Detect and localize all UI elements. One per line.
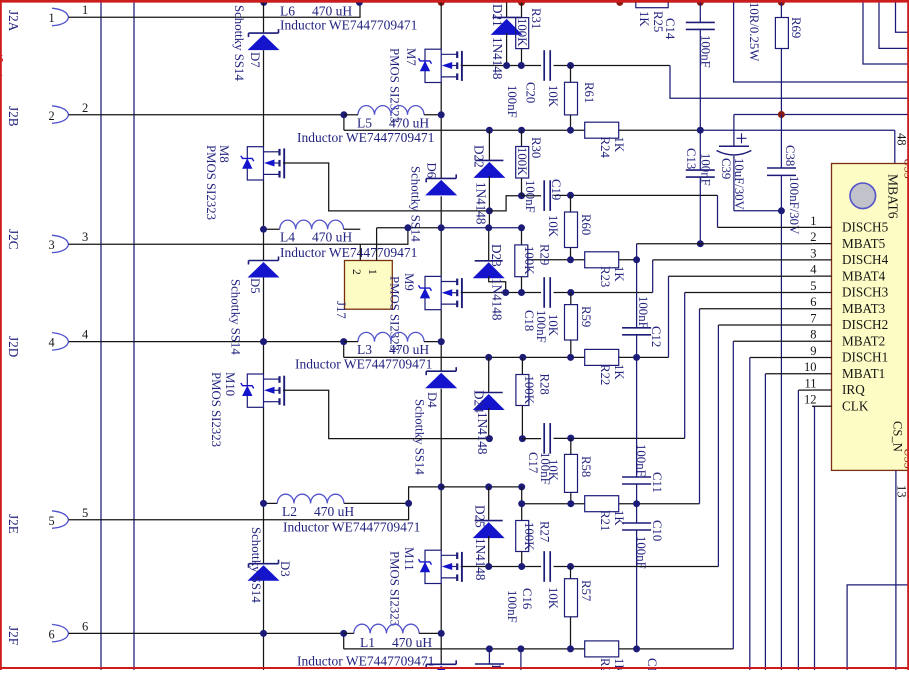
label C39	[719, 158, 733, 179]
wire net MBAT2 y=648.9	[344, 341, 734, 649]
label R59	[579, 306, 593, 327]
node R69 top junction	[778, 0, 785, 6]
node pin4 branch junction	[340, 338, 347, 345]
label right edge designator	[902, 158, 909, 469]
node R30 bottom junction	[518, 192, 525, 199]
svg-text:C19: C19	[549, 179, 563, 200]
label D23	[489, 244, 504, 267]
svg-text:D24: D24	[472, 390, 487, 413]
label R29	[538, 244, 552, 265]
resistor R20 1K	[585, 641, 619, 657]
pin number 3 label	[82, 230, 88, 244]
svg-text:11: 11	[804, 376, 816, 390]
svg-text:D7: D7	[248, 52, 262, 68]
pin 12 CLK	[804, 393, 869, 414]
label M7 PMOS SI2323	[388, 48, 402, 123]
resistor R27 100K	[516, 487, 529, 567]
svg-text:R24: R24	[598, 137, 612, 159]
resistor R60 10K	[565, 195, 578, 259]
capacitor C14 100nF	[686, 2, 715, 130]
wire net y=82 to right sheet	[734, 0, 909, 82]
label R57 10K	[546, 587, 560, 610]
label R23	[598, 266, 626, 287]
schottky diode D6	[425, 174, 457, 195]
wire bottom right route	[847, 585, 909, 670]
svg-text:4: 4	[49, 336, 55, 350]
svg-text:C17: C17	[526, 452, 540, 474]
node D25 top junction	[485, 483, 492, 490]
wire off-sheet route 1	[863, 0, 909, 64]
pin 8 MBAT2	[810, 328, 885, 349]
svg-text:1: 1	[49, 11, 55, 25]
resistor R28 100K	[516, 357, 529, 438]
node C19 right junction	[567, 192, 574, 199]
svg-text:10K: 10K	[546, 459, 560, 482]
svg-text:470 uH: 470 uH	[392, 635, 432, 650]
svg-text:D3: D3	[278, 561, 292, 577]
svg-text:R58: R58	[579, 456, 593, 477]
resistor R59 10K	[565, 293, 578, 358]
svg-text:DISCH2: DISCH2	[842, 317, 888, 332]
svg-text:M11: M11	[402, 547, 416, 571]
svg-text:2: 2	[810, 230, 816, 244]
resistor R30 100K	[516, 130, 529, 196]
svg-text:C13: C13	[684, 148, 698, 169]
svg-text:MBAT4: MBAT4	[842, 268, 886, 283]
node C10 top junction	[633, 500, 640, 507]
svg-text:D23: D23	[489, 244, 504, 267]
node R61 bottom junction	[567, 127, 574, 134]
label R69 10R/0.25W	[747, 2, 761, 62]
svg-text:C14: C14	[663, 18, 677, 40]
svg-text:C12: C12	[649, 326, 663, 347]
svg-text:Schottky SS14: Schottky SS14	[249, 527, 263, 603]
wire vertical bus rail x=101	[100, 0, 102, 670]
wire pin11 IRQ route	[798, 390, 812, 670]
label D24 1N4148	[475, 412, 490, 455]
node L5 right junction	[438, 111, 445, 118]
label D6 Schottky SS14	[409, 166, 423, 242]
label R31	[529, 8, 543, 29]
label C20 100nF	[505, 85, 519, 118]
capacitor C18 100nF	[544, 277, 550, 308]
label M8 PMOS SI2323	[204, 145, 218, 220]
svg-text:2: 2	[49, 109, 55, 123]
svg-text:M10: M10	[223, 372, 237, 396]
label M10 PMOS SI2323	[209, 372, 223, 447]
wire net VP y=114.5	[734, 114, 909, 116]
wire pin4 MBAT4 route	[669, 275, 813, 277]
label D21	[490, 4, 505, 27]
node D25 anode junction	[485, 563, 492, 570]
node pin5 junction	[405, 500, 412, 507]
label C19	[549, 179, 563, 200]
svg-text:10K: 10K	[546, 215, 560, 238]
label C17 100nF	[538, 452, 552, 485]
wire pin4 branch	[343, 342, 345, 358]
wire pin12 CLK route	[812, 406, 814, 670]
node R29 bottom junction	[518, 289, 525, 296]
svg-text:1N4148: 1N4148	[490, 37, 505, 80]
label D24	[472, 390, 487, 413]
wire pin2 branch	[343, 115, 345, 130]
label R57	[579, 580, 593, 602]
svg-text:100nF: 100nF	[636, 296, 650, 329]
node L4 left junction	[260, 226, 267, 233]
svg-text:IRQ: IRQ	[842, 382, 865, 397]
wire pin3 DISCH4 route	[653, 259, 813, 261]
svg-text:100K: 100K	[515, 147, 529, 176]
svg-text:Inductor WE7447709471: Inductor WE7447709471	[297, 654, 434, 669]
connector J2C pin 3	[6, 229, 69, 253]
node D23 top junction	[485, 224, 492, 231]
svg-text:100nF: 100nF	[534, 310, 548, 343]
node R58 bottom junction	[567, 500, 574, 507]
svg-text:R23: R23	[598, 266, 612, 287]
resistor R24 1K	[585, 122, 619, 138]
svg-text:8: 8	[810, 328, 816, 342]
svg-text:R59: R59	[579, 306, 593, 327]
capacitor C17 100nF	[544, 423, 550, 454]
wire pin1 to top rail	[69, 2, 361, 17]
resistor R23 1K	[585, 252, 619, 268]
node C18 right junction	[567, 289, 574, 296]
label pin 13	[895, 485, 909, 498]
label R27	[538, 521, 552, 543]
svg-text:6: 6	[49, 627, 55, 641]
svg-text:MBAT3: MBAT3	[842, 301, 886, 316]
label R24	[598, 137, 626, 159]
svg-text:C38: C38	[783, 145, 797, 166]
node R29 top junction	[518, 224, 525, 231]
svg-text:Schottky SS14: Schottky SS14	[409, 166, 423, 242]
inductor L3 label	[295, 342, 432, 372]
label C12	[649, 326, 663, 347]
svg-text:10K: 10K	[546, 587, 560, 610]
wire rail D7/M8/D5/M10/D3 column x=263.5	[263, 2, 265, 670]
label C11	[650, 472, 664, 493]
node pin2 branch junction	[340, 111, 347, 118]
svg-text:R30: R30	[529, 137, 543, 158]
label C19 100nF	[523, 180, 537, 213]
wire M7 gate net B1	[461, 66, 909, 99]
node L1 right junction	[438, 630, 445, 637]
svg-text:L1: L1	[360, 635, 375, 650]
node L2 rail junction	[438, 483, 445, 490]
capacitor C11 100nF	[622, 357, 651, 503]
wire pin1 DISCH5 route	[718, 226, 813, 228]
svg-text:MBAT1: MBAT1	[842, 366, 885, 381]
svg-text:D21: D21	[490, 4, 505, 27]
label D22	[472, 145, 487, 168]
svg-text:PMOS SI2323: PMOS SI2323	[388, 276, 402, 351]
svg-text:100nF: 100nF	[523, 180, 537, 213]
node C13 pin2 junction	[697, 240, 704, 247]
svg-text:J2D: J2D	[6, 336, 21, 357]
resistor R31 100K	[516, 2, 529, 66]
node D24 anode junction	[486, 435, 493, 442]
pmos M11	[419, 550, 462, 583]
wire pin5 DISCH3 route	[685, 292, 813, 294]
node D21 anode junction	[503, 62, 510, 69]
label R20	[598, 658, 626, 675]
wire pin4	[69, 341, 344, 343]
label MBAT6 pin48 name	[886, 174, 901, 219]
svg-text:M8: M8	[217, 145, 231, 163]
pin 9 DISCH1	[810, 344, 888, 365]
node C12 top junction	[633, 256, 640, 263]
node R28 bottom junction	[519, 435, 526, 442]
svg-text:R21: R21	[598, 510, 612, 531]
label M11 PMOS SI2323	[388, 551, 402, 626]
inductor L1 label	[297, 635, 434, 669]
svg-text:M7: M7	[404, 48, 418, 66]
svg-text:R25: R25	[651, 11, 665, 32]
label C10	[650, 520, 664, 541]
wire L4 net	[264, 228, 522, 230]
svg-text:D5: D5	[248, 278, 262, 294]
wire top rail y=2	[240, 1, 782, 3]
cut resistor R26 lead	[520, 649, 522, 670]
resistor R69 10R	[775, 2, 788, 115]
label R21	[598, 510, 626, 531]
diode D22 1N4148	[473, 130, 505, 228]
svg-text:R27: R27	[538, 521, 552, 543]
svg-text:1N4148: 1N4148	[490, 278, 505, 321]
inductor L4 label	[280, 230, 417, 261]
svg-text:C39: C39	[719, 158, 733, 179]
node L3 right junction	[438, 338, 445, 345]
svg-text:C16: C16	[520, 588, 534, 610]
label R60 10K	[546, 215, 560, 238]
resistor R25 1K	[636, 0, 668, 32]
svg-text:CLK: CLK	[842, 398, 869, 413]
label C13	[684, 148, 698, 169]
svg-text:R29: R29	[538, 244, 552, 265]
connector J2B pin 2	[6, 106, 69, 127]
wire rail M7/D6/M9/D4/M11 column x=441.2	[440, 2, 442, 664]
node M7 drain top junction	[438, 0, 445, 6]
svg-text:R57: R57	[579, 580, 593, 602]
inductor L2 label	[282, 504, 420, 535]
label D6	[425, 163, 439, 179]
pin number 6 label	[82, 619, 88, 633]
wire pin2 MBAT5 route right	[637, 243, 813, 245]
svg-text:12: 12	[804, 393, 817, 407]
pin number 5 label	[82, 506, 88, 520]
svg-text:5: 5	[810, 279, 816, 293]
label D5 Schottky SS14	[229, 279, 243, 355]
svg-text:100nF: 100nF	[505, 590, 519, 623]
svg-text:1: 1	[82, 3, 88, 17]
wire M8 gate route	[283, 163, 489, 211]
node R31 top junction	[518, 0, 525, 6]
svg-text:2: 2	[350, 269, 362, 275]
svg-text:PMOS SI2323: PMOS SI2323	[204, 145, 218, 220]
node R30 top junction	[518, 127, 525, 134]
label C12 100nF	[636, 296, 650, 329]
svg-text:10: 10	[804, 360, 817, 374]
svg-text:100K: 100K	[522, 246, 536, 275]
svg-text:100K: 100K	[522, 522, 536, 551]
node C14 top junction	[697, 0, 704, 6]
diode D25 1N4148	[473, 487, 505, 567]
pmos M9	[419, 276, 462, 309]
wire net MBAT5 y=259.8	[527, 259, 637, 261]
svg-text:D6: D6	[425, 163, 439, 179]
wire pin8 MBAT2 route	[733, 340, 812, 342]
svg-text:3: 3	[82, 230, 88, 244]
svg-text:10R/0.25W: 10R/0.25W	[747, 2, 761, 62]
svg-text:DISCH3: DISCH3	[842, 285, 889, 300]
svg-text:L4: L4	[280, 230, 295, 245]
label C14 100nF	[699, 35, 713, 68]
op-amp U35 IC block	[832, 164, 909, 471]
node L2 left junction	[260, 500, 267, 507]
connector J2F pin 6	[6, 624, 69, 645]
svg-text:100nF: 100nF	[634, 444, 648, 477]
wire pin2 MBAT5 route	[636, 244, 638, 260]
schottky diode D3	[248, 560, 280, 581]
svg-text:470 uH: 470 uH	[312, 4, 352, 19]
node C38 bottom junction	[778, 207, 785, 214]
pin 1 DISCH5	[810, 214, 888, 235]
svg-text:R60: R60	[579, 214, 593, 235]
label D3 Schottky SS14	[249, 527, 263, 603]
label R60	[579, 214, 593, 235]
node D23 anode junction	[502, 289, 509, 296]
label R69	[789, 17, 803, 38]
svg-text:J2C: J2C	[6, 229, 21, 250]
inductor L2	[277, 494, 344, 503]
svg-text:1K: 1K	[612, 266, 626, 282]
node pin3 junction	[404, 224, 411, 231]
node C15 junction	[633, 645, 640, 652]
svg-text:9: 9	[810, 344, 816, 358]
label R58 10K	[546, 459, 560, 482]
svg-text:6: 6	[810, 295, 816, 309]
node D26 top junction	[486, 645, 493, 652]
node D24 top junction	[485, 354, 492, 361]
diode D21 1N4148	[491, 2, 523, 66]
wire off-sheet route 3	[896, 0, 909, 32]
svg-text:R22: R22	[598, 364, 612, 385]
svg-text:Schottky SS14: Schottky SS14	[229, 279, 243, 355]
resistor R58 10K	[565, 438, 578, 503]
label D25	[473, 505, 488, 528]
svg-text:D25: D25	[473, 505, 488, 528]
svg-text:L2: L2	[282, 504, 297, 519]
svg-text:100K: 100K	[515, 18, 529, 47]
svg-text:D22: D22	[472, 145, 487, 168]
svg-text:MBAT2: MBAT2	[842, 333, 885, 348]
node C17 right junction	[567, 435, 574, 442]
connector J17	[334, 228, 392, 320]
pin 5 DISCH3	[810, 279, 888, 300]
svg-text:DISCH1: DISCH1	[842, 350, 888, 365]
label cut diode 1N4148	[489, 663, 504, 675]
node D22 top junction	[486, 127, 493, 134]
svg-text:L6: L6	[280, 4, 295, 19]
schottky diode D4	[425, 367, 457, 388]
svg-text:48: 48	[895, 133, 909, 146]
pmos M8	[241, 147, 284, 180]
svg-text:4: 4	[810, 263, 817, 277]
wire net L2ext	[441, 486, 522, 488]
label M9	[402, 273, 416, 291]
capacitor C12 100nF	[622, 260, 651, 358]
label IC pin 48	[895, 133, 909, 146]
svg-text:470 uH: 470 uH	[314, 504, 354, 519]
wire net MBAT3 y=503.7	[522, 309, 700, 504]
label D7	[248, 52, 262, 68]
resistor R57 10K	[565, 567, 578, 649]
svg-text:1N4148: 1N4148	[475, 412, 490, 455]
connector J2A pin 1	[6, 8, 69, 32]
inductor L4	[280, 220, 344, 229]
capacitor C13 100nF	[686, 130, 715, 244]
node pin4 rail1 junction	[260, 338, 267, 345]
node R59 bottom junction	[567, 354, 574, 361]
label D23 1N4148	[490, 278, 505, 321]
svg-text:M9: M9	[402, 273, 416, 291]
svg-text:5: 5	[82, 506, 88, 520]
label D3	[278, 561, 292, 577]
svg-text:7: 7	[810, 311, 816, 325]
svg-text:4: 4	[82, 328, 89, 342]
capacitor C16 100nF	[544, 551, 550, 582]
label R27 100K	[522, 522, 536, 551]
pmos M10	[241, 374, 284, 407]
svg-text:1K: 1K	[612, 510, 626, 526]
label R30 100K	[515, 147, 529, 176]
svg-text:Inductor WE7447709471: Inductor WE7447709471	[280, 18, 417, 33]
wire net B4	[522, 293, 684, 439]
inductor L5	[344, 106, 441, 115]
label C11 100nF	[634, 444, 648, 477]
cut diode stub bottom rail2	[425, 660, 457, 675]
svg-text:MBAT5: MBAT5	[842, 236, 886, 251]
svg-text:R61: R61	[582, 82, 596, 103]
wire M11 gate net B5	[461, 325, 719, 567]
svg-text:C18: C18	[522, 310, 536, 331]
node R28 top junction	[519, 354, 526, 361]
svg-text:Inductor WE7447709471: Inductor WE7447709471	[297, 130, 434, 145]
label R31 100K	[515, 18, 529, 47]
svg-text:3: 3	[810, 246, 816, 260]
svg-text:PMOS SI2323: PMOS SI2323	[209, 372, 223, 447]
label R28	[538, 374, 552, 395]
resistor R61 10K	[565, 66, 578, 131]
svg-text:10uF/30V: 10uF/30V	[732, 158, 746, 211]
wire pin9 DISCH1 route	[750, 358, 812, 671]
node C16 right junction	[567, 563, 574, 570]
svg-text:470 uH: 470 uH	[389, 116, 429, 131]
svg-text:Inductor WE7447709471: Inductor WE7447709471	[283, 520, 420, 535]
label C10 100nF	[634, 536, 648, 569]
pin 11 IRQ	[804, 376, 865, 397]
label C20	[524, 82, 538, 103]
label C15 cut	[645, 658, 659, 675]
svg-text:1: 1	[810, 214, 816, 228]
node R31 bottom junction	[518, 62, 525, 69]
wire pin2	[69, 114, 344, 116]
svg-text:3: 3	[49, 238, 55, 252]
svg-text:100nF: 100nF	[699, 35, 713, 68]
wire pin6	[69, 632, 344, 634]
pin 7 DISCH2	[810, 311, 888, 332]
svg-text:C11: C11	[650, 472, 664, 493]
